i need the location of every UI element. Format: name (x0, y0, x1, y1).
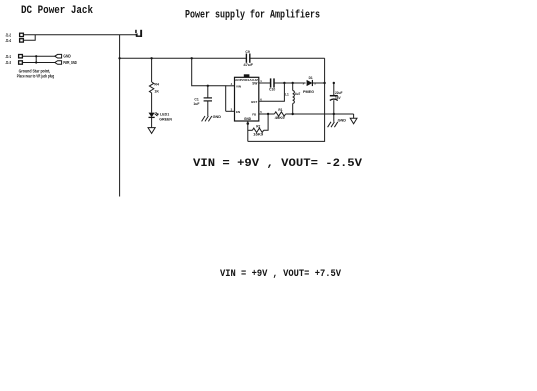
svg-text:C10: C10 (269, 88, 275, 92)
inductor L1 (vertical) (293, 83, 295, 114)
plug P1 (DC jack plug) (134, 30, 142, 37)
wire FB line (259, 113, 275, 115)
wire U1 GND pin drop (247, 121, 249, 141)
ground (open triangle) AGND (350, 118, 357, 124)
svg-text:16K9: 16K9 (253, 133, 263, 137)
junction rail / LED branch (150, 57, 152, 59)
wire star point vertical (35, 56, 37, 62)
wire bottom loop (248, 58, 325, 141)
net flag GND (55, 54, 62, 58)
wire LED branch upper (151, 58, 153, 82)
svg-text:Place near to VR jack plug: Place near to VR jack plug (17, 73, 55, 78)
svg-text:VIN: VIN (236, 84, 241, 88)
ground (open triangle) LED (148, 128, 155, 134)
svg-text:4u7: 4u7 (295, 92, 301, 96)
svg-text:L1: L1 (285, 92, 289, 96)
svg-text:47uF: 47uF (243, 63, 254, 67)
capacitor C4 (output 22uF) wire upper (333, 83, 335, 96)
svg-text:Power supply for Amplifiers: Power supply for Amplifiers (185, 10, 320, 22)
junction star point bottom (35, 61, 37, 63)
svg-text:C9: C9 (245, 50, 249, 54)
connector J1 pin J1-1 square (19, 55, 23, 58)
svg-text:R2: R2 (256, 124, 260, 128)
wire J1-1 to GND flag (22, 55, 54, 57)
wire FB line step to AGND (353, 114, 355, 118)
svg-text:VIN = +9V , VOUT= -2.5V: VIN = +9V , VOUT= -2.5V (193, 158, 362, 170)
diode D1 (307, 80, 313, 86)
wire LED branch middle (151, 93, 153, 113)
svg-text:D1: D1 (309, 76, 313, 80)
wire C4 lower (333, 100, 335, 122)
junction C4 rail (333, 82, 335, 84)
connector J1 pin J1-4 square (20, 39, 24, 42)
capacitor C2 (input 1uF) (204, 98, 212, 101)
junction bootstrap return (283, 82, 285, 84)
wire J1-3 to PWR_GND flag (22, 62, 54, 64)
wire J1-4 step up (23, 35, 35, 41)
svg-text:J1-4: J1-4 (6, 38, 12, 43)
wire +9V main rail (120, 57, 246, 59)
op-amp U1 regulator IC box (235, 77, 259, 121)
wire +9V main rail right of series cap (250, 57, 324, 59)
connector J1 pin J1-3 square (19, 61, 23, 64)
svg-text:1uF: 1uF (193, 102, 199, 106)
svg-text:J1-3: J1-3 (6, 60, 12, 65)
junction inductor tap (292, 82, 294, 84)
svg-text:49K9: 49K9 (275, 116, 285, 120)
wire FB line right (286, 113, 354, 115)
junction at rail start (118, 57, 120, 59)
wire U1 SW rail (259, 82, 270, 84)
resistor R1 (149, 82, 153, 93)
svg-text:VIN = +9V , VOUT= +7.5V: VIN = +9V , VOUT= +7.5V (220, 269, 341, 280)
capacitor C4 plates (330, 96, 338, 101)
svg-text:DC Power Jack: DC Power Jack (21, 5, 93, 17)
svg-text:LED1: LED1 (160, 113, 169, 117)
svg-text:R4: R4 (154, 82, 159, 86)
svg-text:PWR_GND: PWR_GND (63, 60, 77, 65)
wire bootstrap return (259, 83, 285, 101)
svg-text:16V: 16V (335, 96, 342, 100)
svg-text:SW: SW (252, 82, 257, 86)
label U1 refdes blob (244, 74, 250, 77)
svg-text:PMEG: PMEG (303, 90, 315, 94)
junction GND pin node (247, 122, 250, 125)
svg-text:BST: BST (251, 100, 257, 104)
wire R3 right leg to FB (264, 114, 269, 130)
svg-text:J1-2: J1-2 (6, 32, 12, 37)
ground (hatched) C4 (328, 122, 338, 127)
svg-text:22uF: 22uF (335, 91, 342, 95)
wire input cap upper (207, 86, 209, 98)
net flag PWR_GND (55, 61, 62, 65)
connector J1 pin J1-2 square (20, 33, 24, 36)
svg-text:C1: C1 (194, 98, 198, 102)
svg-text:EN: EN (236, 110, 240, 114)
junction star point top (35, 55, 37, 57)
junction input cap tap (207, 85, 209, 87)
svg-text:GND: GND (244, 117, 252, 121)
svg-text:J1-1: J1-1 (6, 54, 12, 59)
ground (hatched) input cap (202, 116, 212, 121)
wire input cap lower (207, 101, 209, 116)
junction FB/R3 (267, 113, 269, 115)
wire U1 pin3 stub (226, 110, 235, 112)
svg-text:GND: GND (213, 115, 222, 119)
junction FB/L1 (292, 113, 294, 115)
resistor R3 (FB bottom) (252, 128, 263, 132)
svg-text:GND: GND (338, 118, 347, 122)
LED LED1 (149, 112, 159, 117)
svg-text:GREEN: GREEN (159, 117, 172, 121)
capacitor C3 (bootstrap) (271, 78, 274, 87)
svg-text:R1: R1 (278, 108, 282, 112)
svg-text:1K: 1K (154, 90, 159, 94)
junction rail / U1 VIN tap (191, 57, 193, 59)
wire U1 pin4 stub (226, 85, 235, 87)
wire main input drop (node +9V) (119, 35, 121, 197)
wire LED to ground (151, 117, 153, 127)
wire J1-2 to plug (23, 34, 135, 36)
wire R3 left leg (248, 129, 253, 131)
capacitor C1 (series on top line) (246, 54, 249, 63)
wire SW rail mid (274, 82, 305, 84)
junction -VOUT node (323, 82, 325, 84)
junction FB/C4 (333, 113, 335, 115)
svg-text:GND: GND (63, 54, 70, 59)
resistor R2 (FB top) (274, 112, 285, 116)
wire SW rail to output node (312, 82, 324, 84)
wire U1 VIN riser (192, 58, 226, 111)
